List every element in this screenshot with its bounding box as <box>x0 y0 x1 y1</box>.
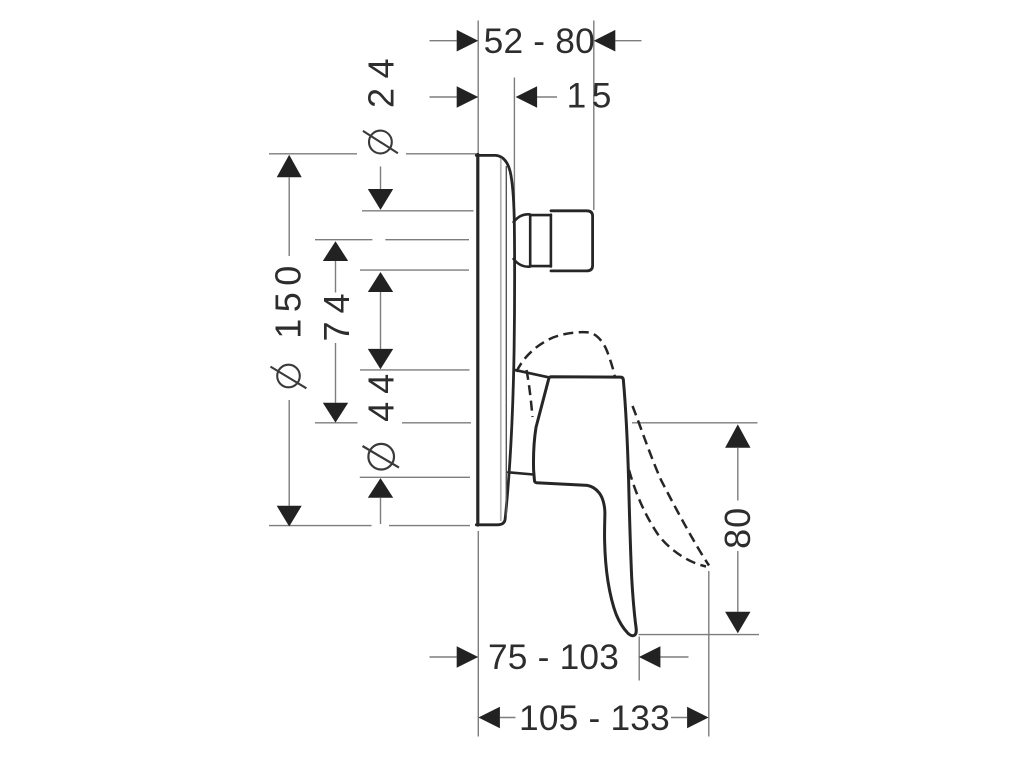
dimension 74 arrow down <box>323 403 348 423</box>
dimension 105-133 arrow left <box>478 707 500 729</box>
dimension 75-103 arrow left <box>457 646 479 668</box>
svg-text:24: 24 <box>360 49 401 108</box>
svg-text:15: 15 <box>567 77 617 116</box>
dimension 105-133 label <box>519 699 670 738</box>
dimension 52-80 tails <box>430 40 642 42</box>
escutcheon inner highlight line <box>500 159 502 522</box>
dimension 74 label <box>316 285 357 341</box>
connector end cylinder <box>551 211 593 271</box>
extension line: plate top projection (y=154) <box>269 153 476 155</box>
dimension 74 dimension line lower <box>335 343 337 403</box>
extension line: plate face vertical top (x=478.2) <box>477 21 479 154</box>
dimension D24 diameter symbol <box>363 131 398 154</box>
extension line: sleeve bottom (y=477.3) <box>360 476 470 478</box>
dimension 15 tails <box>430 96 558 98</box>
extension line: dashed-handle tip vertical (x=708.8) <box>708 571 710 737</box>
extension line: grip tip vertical (x=639.2) <box>638 637 640 681</box>
extension line: connector top (y=210.8) <box>362 210 474 212</box>
extension line: plate face vertical bottom (x=478.3) <box>477 531 479 737</box>
dimension D150 arrow down <box>277 506 302 527</box>
svg-text:44: 44 <box>360 366 401 422</box>
handle body <box>534 377 637 636</box>
dimension 74 arrow up <box>323 241 348 261</box>
extension line: grip bottom (y=634.6) <box>639 634 760 636</box>
dimension D44 dimension line lower <box>380 498 382 524</box>
dimension 52-80 arrow right <box>594 30 616 52</box>
cartridge sleeve top edge <box>514 370 548 377</box>
dimension 80 dimension line upper <box>737 448 739 501</box>
dimension 75-103 label <box>488 638 619 677</box>
dimension 105-133 arrow right <box>687 707 709 729</box>
dimension 52-80 arrow left <box>457 30 479 52</box>
dashed raised-handle grip back edge <box>633 406 710 566</box>
connector middle cylinder <box>530 215 551 267</box>
escutcheon inner edge line <box>505 166 507 517</box>
dashed raised-handle top edge <box>517 332 615 376</box>
extension line: connector bottom (y=270.1) <box>360 269 469 271</box>
dimension D24 label <box>360 49 401 108</box>
dimension 52-80 label <box>484 22 595 61</box>
dimension D24 arrow down <box>368 189 393 210</box>
dimension D44 label 44 <box>360 366 401 422</box>
dimension D24/D44 shared dimension line <box>380 292 382 349</box>
dimension D150 label <box>268 259 309 339</box>
dimension 75-103 arrow right <box>639 646 661 668</box>
svg-text:74: 74 <box>316 285 357 341</box>
dimension 105-133 tails <box>500 717 687 719</box>
dashed raised-handle grip front edge <box>629 470 706 567</box>
extension line: connector axis (y=239.7) <box>315 239 469 241</box>
dashed raised-handle underside edge <box>527 370 533 417</box>
svg-text:80: 80 <box>717 507 758 549</box>
svg-text:52 - 80: 52 - 80 <box>484 22 595 61</box>
dimension D24 dimension line upper <box>380 167 382 190</box>
dimension 80 arrow down <box>725 612 750 634</box>
dimension 74 dimension line upper <box>335 261 337 293</box>
svg-text:105 - 133: 105 - 133 <box>519 699 670 738</box>
dimension 80 label <box>717 507 758 549</box>
dimension D150 dimension line lower <box>288 400 290 506</box>
dimension 80 arrow up <box>725 424 750 447</box>
dimension D44 arrow up <box>368 478 393 498</box>
dimension D150 arrow up <box>277 155 302 178</box>
dimension D44 label diameter symbol <box>363 444 400 470</box>
extension line: dome peak vertical (x=514.4) <box>513 78 515 206</box>
extension line: cartridge axis left (y=422.8) <box>315 422 471 424</box>
dimension 15 label <box>567 77 617 116</box>
escutcheon plate outline <box>476 155 514 526</box>
extension line: sleeve top (y=369.9) <box>360 369 470 371</box>
svg-text:150: 150 <box>268 259 309 339</box>
extension line: connector end vertical (x=593.8) <box>593 21 595 211</box>
dimension 80 dimension line lower <box>737 551 739 612</box>
extension line: cartridge axis right (y=422.8) <box>632 422 758 424</box>
dimension D24 arrow up <box>368 272 393 292</box>
dimension D44 arrow down <box>368 349 393 369</box>
cartridge sleeve bottom edge <box>508 472 533 474</box>
connector collar <box>514 214 531 266</box>
dimension 15 arrow right <box>516 86 538 108</box>
dimension D150 dimension line upper <box>288 177 290 256</box>
extension line: plate bottom projection (y=525.6) <box>269 525 470 527</box>
dimension 15 arrow left <box>457 86 479 108</box>
dimension 75-103 tails <box>430 656 689 658</box>
dimension D150 diameter symbol <box>271 365 307 389</box>
svg-text:75 - 103: 75 - 103 <box>488 638 619 677</box>
